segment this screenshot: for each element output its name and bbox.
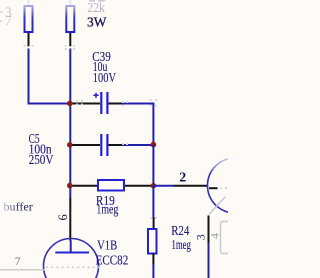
grid bar continuation (faint dashes) [220, 187, 228, 189]
body [98, 180, 124, 191]
resistor R19 [70, 180, 151, 191]
right pin [109, 144, 123, 146]
pin wire above R24 [153, 217, 155, 229]
grid bar V1A [209, 187, 218, 189]
svg-text:3: 3 [194, 234, 208, 240]
svg-text:4: 4 [208, 233, 222, 239]
svg-text:22k: 22k [87, 0, 105, 15]
label C39 [92, 50, 116, 86]
capacitor C39 (polarized) [70, 92, 122, 114]
resistor (22k 3W) [66, 6, 74, 32]
left pin [70, 144, 100, 146]
cut-off text remnants at top edge [89, 0, 105, 2]
svg-text:250V: 250V [29, 153, 54, 168]
label C5 [29, 132, 54, 168]
resistor R24 body [148, 229, 157, 254]
pin wire: V1B anode (outside tube) [69, 198, 71, 241]
plates [100, 134, 102, 156]
grid V1B (faint dashed) [46, 266, 99, 268]
svg-text:6: 6 [56, 214, 70, 220]
wire: net to V1A grid [153, 185, 173, 187]
label R24 [171, 224, 191, 253]
plus sign [93, 93, 98, 98]
pin wire: grid of V1A [174, 185, 208, 187]
right pin [125, 185, 151, 187]
svg-text:R24: R24 [171, 224, 189, 239]
junction (153,185.7) [151, 183, 157, 189]
svg-text:3W: 3W [87, 15, 107, 30]
triode V1A envelope (right) [208, 158, 263, 213]
cathode pin wire V1A (pin 3) [208, 216, 210, 244]
wire stub above left resistor (faded) [28, 0, 30, 5]
left pin [70, 185, 97, 187]
svg-text:buffer: buffer [4, 200, 33, 214]
wire stub above right resistor (faded) [69, 0, 71, 5]
anode stem inside tube (blue) [70, 241, 72, 253]
svg-text:7: 7 [5, 13, 12, 28]
gray component outline (right edge) [221, 222, 235, 254]
resistor (left, value off-screen) [25, 6, 33, 32]
wire: main vertical net x=70 [69, 49, 71, 199]
wire below R24 [152, 265, 154, 278]
svg-text:1meg: 1meg [96, 203, 118, 218]
faint grid dot clusters [24, 45, 157, 219]
junction (70,145) [67, 142, 73, 148]
wire: C5 right to vertical net [122, 144, 153, 146]
grid lead pin 7 (gray) [0, 269, 45, 271]
label R19 [96, 194, 118, 218]
pin wire below right resistor [69, 33, 71, 46]
svg-text:1meg: 1meg [172, 238, 191, 253]
anode bar V1B [55, 252, 89, 254]
triode V1B envelope [44, 239, 99, 278]
svg-text:ECC82: ECC82 [96, 253, 129, 268]
svg-text:7: 7 [15, 256, 21, 268]
junction (70,185.7) [67, 183, 73, 189]
pin wire below R24 [152, 254, 154, 265]
wire: right vertical net x=153 [152, 145, 154, 186]
wire: cathode net down [208, 243, 210, 278]
cathode lead V1A (faded diagonal) [209, 197, 226, 215]
plates [100, 92, 102, 114]
left pin [70, 103, 100, 105]
right pin [109, 103, 123, 105]
svg-text:100V: 100V [93, 71, 116, 86]
wire: left resistor to junction (elbow) [29, 49, 71, 104]
svg-text:2: 2 [179, 171, 186, 186]
junction (153,145) [151, 142, 157, 148]
capacitor C5 [70, 134, 122, 156]
cut-off marks at left edge [0, 12, 3, 23]
label V1B [96, 238, 129, 268]
junction (70,103.5) [67, 101, 73, 107]
wire: C39 right to elbow down [122, 104, 153, 146]
wire: net down to R24 [152, 186, 154, 217]
pin wire below left resistor [28, 33, 30, 46]
svg-text:V1B: V1B [97, 238, 117, 253]
